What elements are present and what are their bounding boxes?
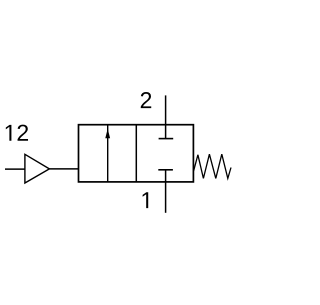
wire pilot line left [5, 168, 25, 170]
blocked port 1 bar [158, 169, 173, 171]
port 2 connection line [165, 95, 167, 138]
label 12 (pilot port) [6, 125, 28, 141]
wire triangle to valve body [49, 168, 78, 170]
return spring [194, 154, 231, 178]
flow arrow line (left chamber) [107, 125, 109, 182]
blocked port 2 bar [159, 138, 174, 140]
label 1 (supply port) [143, 192, 149, 208]
pilot actuator triangle [25, 154, 50, 183]
label 2 (output port) [141, 92, 151, 108]
valve body outline [79, 125, 194, 182]
port 1 connection line [165, 170, 167, 213]
flow arrow head [105, 129, 110, 139]
valve position divider [135, 125, 137, 182]
